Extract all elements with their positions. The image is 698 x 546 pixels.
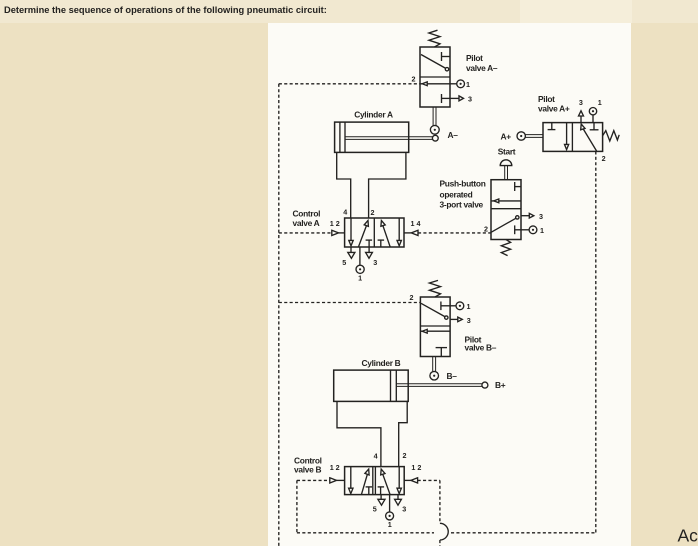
svg-text:2: 2 — [412, 75, 416, 84]
svg-text:A+: A+ — [501, 132, 512, 142]
wire: dashed vertical down from valve B right pilot — [439, 480, 441, 523]
control valve B left pilot — [330, 478, 345, 483]
port 1 of push-button valve — [515, 225, 537, 234]
port 3 exhaust of pilot valve A- — [450, 96, 464, 101]
wire: dashed line to pilot valve B- port 2 — [279, 302, 421, 304]
supply port 1 of control valve B — [386, 495, 394, 520]
cylinder B body — [334, 370, 409, 401]
spring of pilot valve A- — [429, 30, 440, 47]
svg-text:1 2: 1 2 — [330, 463, 340, 472]
control valve B right cell arrows — [378, 467, 402, 495]
port 3 of pilot valve A+ — [579, 111, 584, 123]
svg-text:3-port valve: 3-port valve — [440, 200, 484, 210]
svg-text:3: 3 — [579, 98, 583, 107]
control valve B left cell arrows — [349, 467, 373, 495]
pilot valve B- body — [420, 297, 450, 357]
svg-text:5: 5 — [373, 505, 377, 514]
roller stem of pilot valve A- — [433, 107, 436, 126]
svg-text:B–: B– — [447, 371, 458, 381]
svg-text:1: 1 — [540, 226, 544, 235]
svg-text:1 2: 1 2 — [330, 219, 340, 228]
svg-text:valve A: valve A — [293, 218, 320, 228]
svg-text:Start: Start — [498, 147, 516, 157]
svg-text:Cylinder B: Cylinder B — [362, 358, 401, 368]
exhaust 3 of control valve A — [366, 247, 373, 258]
roller of pilot valve A+ — [517, 132, 543, 140]
svg-text:valve B: valve B — [294, 465, 321, 475]
svg-text:2: 2 — [403, 451, 407, 460]
port 3 of pilot valve B- — [450, 317, 462, 322]
svg-text:1: 1 — [358, 274, 362, 283]
svg-text:2: 2 — [602, 154, 606, 163]
svg-text:2: 2 — [371, 208, 375, 217]
svg-text:Push-button: Push-button — [440, 179, 486, 189]
svg-text:1: 1 — [467, 302, 471, 311]
control valve A left cell arrows — [349, 218, 372, 247]
wire: bottom dashed horizontal right part — [451, 532, 596, 534]
svg-text:Act: Act — [678, 526, 698, 546]
svg-text:2: 2 — [410, 293, 414, 302]
port 1 of pilot valve A- — [450, 80, 465, 88]
control valve A body — [345, 218, 404, 247]
roller of pilot valve B- — [430, 371, 439, 380]
svg-text:Cylinder A: Cylinder A — [354, 109, 393, 119]
wire: dashed line push-button to control valve A right pilot — [418, 232, 491, 234]
rod end knob of cylinder B — [482, 382, 488, 388]
wire: dashed to control valve B left pilot — [297, 479, 330, 481]
control valve A right pilot — [404, 230, 418, 235]
svg-text:2: 2 — [484, 225, 488, 234]
svg-text:1 2: 1 2 — [411, 463, 421, 472]
svg-text:A–: A– — [448, 130, 459, 140]
svg-text:valve B–: valve B– — [465, 343, 497, 353]
wire: dashed vertical up to control valve B left pilot — [296, 480, 298, 532]
pipe manifold of cylinder A — [337, 152, 406, 218]
cylinder A body — [335, 122, 409, 152]
pilot valve A+ body — [543, 123, 603, 152]
svg-text:1: 1 — [388, 520, 392, 529]
wire: left vertical dashed bus — [278, 84, 280, 546]
wire: dashed line pilot A- port 2 to left bus — [279, 83, 420, 85]
exhaust 5 of control valve B — [378, 495, 385, 506]
pilot valve A- body — [420, 47, 450, 107]
port 1 of pilot valve B- — [450, 302, 464, 310]
svg-text:1 4: 1 4 — [411, 219, 421, 228]
svg-text:3: 3 — [468, 94, 472, 103]
rod end knob of cylinder A — [432, 135, 438, 141]
svg-text:Determine the sequence of oper: Determine the sequence of operations of … — [4, 5, 327, 15]
svg-text:valve A+: valve A+ — [538, 104, 570, 114]
svg-text:4: 4 — [343, 208, 347, 217]
wire: dashed branch to control valve A left pilot — [279, 232, 332, 234]
piston rod of cylinder B — [396, 384, 482, 387]
svg-text:3: 3 — [467, 316, 471, 325]
pipe manifold of cylinder B — [337, 401, 407, 466]
svg-text:operated: operated — [440, 190, 473, 200]
spring of pilot valve B- — [429, 280, 440, 297]
push button actuator — [500, 160, 512, 180]
svg-text:4: 4 — [374, 452, 378, 461]
roller of pilot valve A- — [430, 125, 439, 134]
svg-text:1: 1 — [598, 98, 602, 107]
wire: dashed vertical from pilot valve A+ port 2 — [595, 151, 597, 532]
control valve B right pilot — [404, 478, 417, 483]
spring of pilot valve A+ — [603, 131, 620, 141]
spring of push-button valve — [501, 240, 510, 256]
port 1 of pilot valve A+ — [589, 108, 596, 123]
push-button valve body — [491, 180, 521, 240]
svg-text:3: 3 — [402, 505, 406, 514]
wire: bottom dashed horizontal left part — [297, 532, 434, 534]
roller stem of pilot valve B- — [433, 357, 436, 372]
svg-text:3: 3 — [539, 212, 543, 221]
svg-text:Pilot: Pilot — [538, 94, 555, 104]
control valve A left pilot — [332, 230, 345, 235]
white circuit panel — [268, 23, 631, 546]
control valve B body — [345, 467, 405, 495]
svg-text:1: 1 — [466, 80, 470, 89]
svg-text:3: 3 — [373, 258, 377, 267]
supply port 1 of control valve A — [356, 247, 364, 273]
piston rod of cylinder A — [345, 137, 433, 140]
control valve A right cell arrows — [378, 218, 402, 247]
svg-text:Pilot: Pilot — [466, 53, 483, 63]
wire crossing hop — [440, 523, 448, 540]
exhaust 5 of control valve A — [348, 247, 355, 258]
exhaust 3 of control valve B — [395, 495, 402, 506]
wire: dashed from control valve B right pilot — [418, 479, 440, 481]
svg-text:Control: Control — [293, 209, 321, 219]
port 3 of push-button valve — [521, 213, 534, 218]
svg-text:B+: B+ — [495, 380, 506, 390]
svg-text:5: 5 — [342, 258, 346, 267]
svg-text:valve A–: valve A– — [466, 63, 498, 73]
